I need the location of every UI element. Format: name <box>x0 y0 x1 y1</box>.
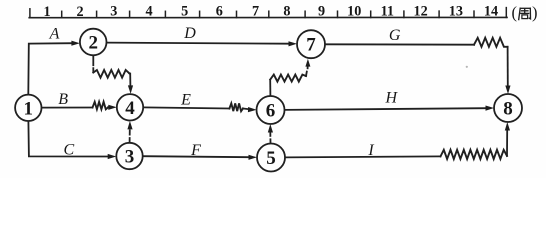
node 7 <box>297 30 325 58</box>
activity I line 5-8 <box>285 156 441 157</box>
unit label (zhou) parentheses <box>512 3 538 22</box>
arrowhead D <box>289 41 298 46</box>
svg-text:I: I <box>367 142 374 159</box>
svg-text:7: 7 <box>252 4 259 20</box>
svg-text:10: 10 <box>347 4 361 20</box>
node 1 <box>15 95 41 121</box>
svg-text:3: 3 <box>125 147 135 168</box>
svg-text:D: D <box>183 25 196 42</box>
svg-text:A: A <box>49 26 60 43</box>
svg-text:8: 8 <box>503 99 513 120</box>
activity G line 7-8 <box>325 43 474 45</box>
arrowhead slack into node 7 bottom <box>305 59 310 67</box>
arrowhead dummy into node 4 bottom <box>127 121 132 129</box>
free float zigzag of E <box>229 103 243 111</box>
label H <box>385 89 399 106</box>
svg-text:4: 4 <box>125 98 135 119</box>
arrowhead A <box>71 41 80 46</box>
svg-text:11: 11 <box>381 4 394 20</box>
activity H arrow 6-8 <box>285 108 486 110</box>
svg-text:F: F <box>190 142 201 159</box>
free float zigzag of I <box>441 150 508 159</box>
svg-text:2: 2 <box>88 33 98 54</box>
arrowhead E <box>248 107 257 112</box>
ruler ticks <box>30 8 506 18</box>
activity B line 1-4 <box>42 107 93 109</box>
free float zigzag of G <box>474 38 508 47</box>
node 7 numeral <box>306 35 316 56</box>
wire G corner down to node 8 <box>507 47 509 87</box>
node 8 <box>494 94 522 122</box>
wire I corner up to node 8 <box>506 130 508 156</box>
svg-text:G: G <box>389 27 401 44</box>
svg-text:B: B <box>58 91 68 108</box>
arrowhead I <box>505 122 510 131</box>
label G <box>389 27 401 44</box>
slack stub below node 2 <box>92 56 94 72</box>
svg-text:12: 12 <box>414 4 428 20</box>
node 2 <box>80 29 107 56</box>
node 6 numeral <box>266 101 276 122</box>
activity A arrow 1-2 <box>28 43 72 94</box>
svg-text:7: 7 <box>306 35 316 56</box>
arrowhead C <box>108 154 117 159</box>
activity C arrow 1-3 <box>28 121 108 157</box>
dummy dashed arrow 3 to 4 <box>129 129 131 143</box>
wire slack down into node 4 <box>129 73 130 86</box>
arrowhead slack into node 4 top <box>128 85 133 94</box>
activity E line 4-6 <box>143 107 229 108</box>
arrowhead B <box>108 105 117 110</box>
svg-text:): ) <box>532 3 538 22</box>
node 3 numeral <box>125 147 135 168</box>
activity D arrow 2-7 <box>107 43 289 44</box>
arrowhead G <box>505 86 510 95</box>
node 6 <box>257 96 285 124</box>
label I <box>367 142 374 159</box>
svg-text:5: 5 <box>181 4 188 20</box>
svg-text:13: 13 <box>449 4 463 20</box>
unit label zhou glyph <box>519 8 531 19</box>
svg-text:9: 9 <box>318 4 325 20</box>
node 4 <box>117 94 143 120</box>
node 1 numeral <box>24 98 34 119</box>
svg-text:1: 1 <box>43 4 50 20</box>
node 5 numeral <box>266 148 276 169</box>
svg-text:14: 14 <box>484 4 498 20</box>
svg-text:1: 1 <box>24 98 34 119</box>
ruler numbers 1-14 <box>43 4 498 20</box>
wire E into node 6 <box>243 108 250 111</box>
free float zigzag of B <box>93 102 109 110</box>
svg-text:(: ( <box>512 3 518 22</box>
label F <box>190 142 201 159</box>
arrowhead H <box>486 106 495 111</box>
slack zigzag 2 to 4 <box>93 70 129 78</box>
arrowhead dummy into node 6 bottom <box>268 124 273 133</box>
node 5 <box>257 144 285 172</box>
svg-text:4: 4 <box>145 4 152 20</box>
label E <box>180 91 191 108</box>
svg-text:2: 2 <box>76 4 83 20</box>
wire short arrow shaft into node 7 <box>307 65 309 68</box>
svg-text:8: 8 <box>283 4 290 20</box>
ruler baseline <box>29 16 507 18</box>
node 8 numeral <box>503 99 513 120</box>
slack stub above node 6 <box>269 80 271 96</box>
arrowhead F <box>249 155 258 160</box>
node 2 numeral <box>88 33 98 54</box>
label D <box>183 25 196 42</box>
node 4 numeral <box>125 98 135 119</box>
activity F arrow 3-5 <box>143 156 249 157</box>
wire slack hook up <box>305 72 308 76</box>
svg-text:3: 3 <box>110 4 117 20</box>
svg-text:5: 5 <box>266 148 276 169</box>
svg-text:6: 6 <box>216 4 223 20</box>
wire B into node 4 <box>108 106 110 108</box>
svg-text:6: 6 <box>266 101 276 122</box>
scan speck <box>466 66 468 68</box>
svg-text:E: E <box>180 91 191 108</box>
label C <box>63 141 74 158</box>
node 3 <box>116 143 142 169</box>
label A <box>49 26 60 43</box>
slack zigzag 6 to 7 <box>270 75 306 82</box>
label B <box>58 91 68 108</box>
dummy dashed arrow 5 to 6 <box>269 132 271 144</box>
svg-text:C: C <box>63 141 74 158</box>
svg-text:H: H <box>385 89 399 106</box>
